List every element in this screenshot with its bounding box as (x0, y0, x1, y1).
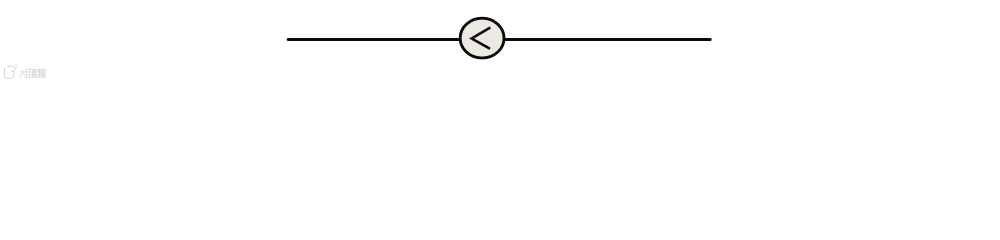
wire left segment (288, 38, 460, 41)
wire right segment (504, 38, 710, 41)
less-than symbol inside circle (472, 28, 491, 49)
watermark text (faint CJK-like glyphs) (20, 69, 46, 78)
circle element (meter symbol) (460, 18, 504, 58)
watermark logo (5, 64, 18, 78)
